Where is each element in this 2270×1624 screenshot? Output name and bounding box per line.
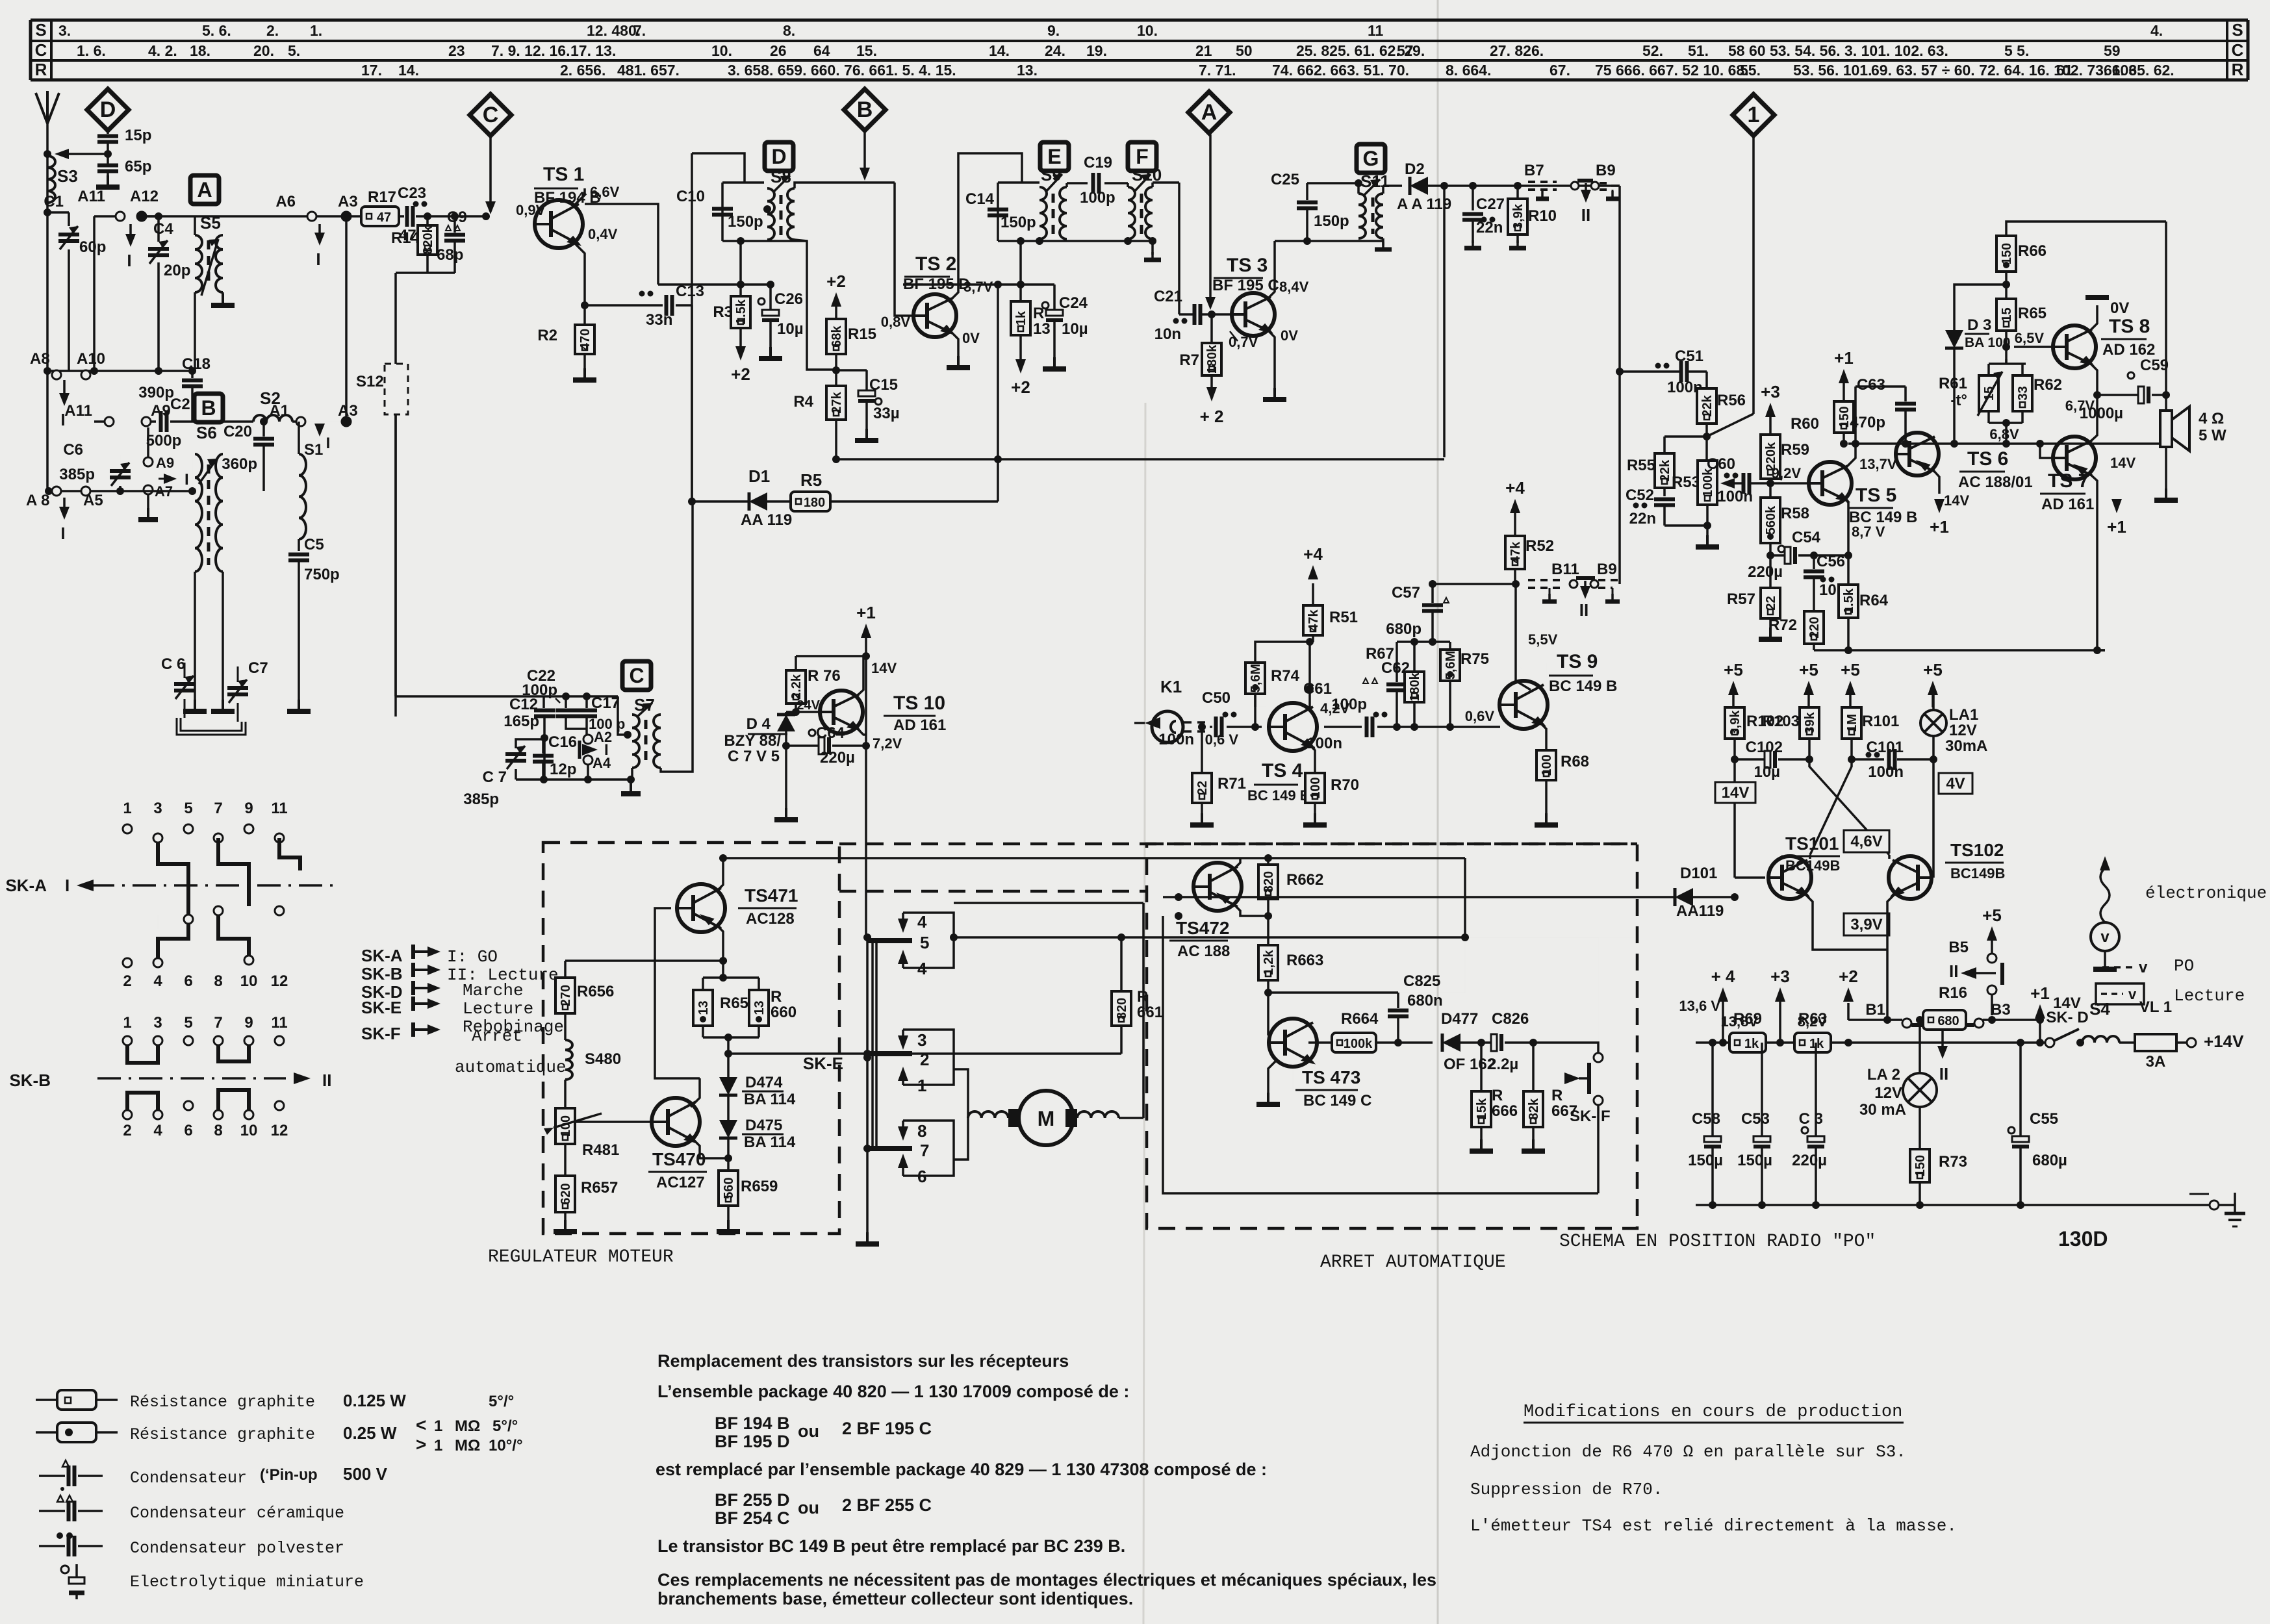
svg-text:B11: B11 [1551,561,1579,578]
TS471 emitter [717,925,723,961]
wire diamond1 to R56 node [1707,414,1754,437]
svg-text:8: 8 [214,1122,222,1139]
svg-text:5: 5 [184,800,192,817]
svg-text:5: 5 [184,1014,192,1032]
svg-text:D: D [771,145,786,168]
svg-text:30mA: 30mA [1945,737,1987,755]
svg-text:C53: C53 [1741,1110,1770,1128]
supply +1 under TS7 [2111,499,2122,513]
svg-text:0.125 W: 0.125 W [343,1391,406,1410]
svg-text:3: 3 [153,1014,162,1032]
svg-text:1: 1 [123,800,131,817]
svg-text:0V: 0V [2110,299,2129,317]
svg-text:D2: D2 [1405,160,1425,178]
svg-text:R662: R662 [1286,871,1323,889]
box B [194,394,223,422]
svg-text:2 BF 195 C: 2 BF 195 C [842,1419,932,1438]
svg-text:Suppression de R70.: Suppression de R70. [1470,1480,1663,1499]
svg-text:64: 64 [813,42,830,59]
svg-text:PO: PO [2174,956,2194,976]
svg-text:19.: 19. [1086,42,1107,59]
svg-text:C6: C6 [63,441,83,459]
switch S12 dashed [385,364,408,414]
svg-text:67.: 67. [1549,62,1570,79]
supply +1 under TS6 [1934,499,1945,513]
svg-text:C59: C59 [2140,357,2169,374]
svg-text:59: 59 [2104,42,2121,59]
ground under S10 [1151,241,1154,255]
ground bus bottom [1696,1204,2209,1206]
svg-text:60p: 60p [79,238,106,256]
svg-text:TS101: TS101 [1785,833,1839,854]
svg-text:470p: 470p [1850,414,1885,431]
svg-text:K1: K1 [1160,677,1182,696]
svg-text:5,6M: 5,6M [1249,664,1263,692]
svg-text:385p: 385p [59,466,95,483]
svg-text:12: 12 [271,972,288,990]
svg-text:automatique: automatique [455,1058,567,1077]
svg-text:TS 5: TS 5 [1856,485,1896,506]
svg-text:8: 8 [214,972,222,990]
svg-text:14.: 14. [989,42,1010,59]
dashed box arret [1147,844,1637,1228]
svg-text:(‘Pin-υp: (‘Pin-υp [260,1466,318,1484]
svg-text:2: 2 [920,1050,929,1069]
legend resistor 0.125W [36,1399,57,1401]
svg-text:220µ: 220µ [1748,563,1783,581]
svg-text:66. 65. 62.: 66. 65. 62. [2104,62,2174,79]
svg-text:11: 11 [271,1014,287,1032]
svg-text:C16: C16 [548,733,577,751]
diamond 1 [1733,94,1774,136]
diamond B [844,89,886,131]
svg-text:R66: R66 [2018,242,2047,260]
oscillator feedback top [692,153,745,183]
TS3 collector to G tank [1267,241,1275,299]
svg-text:A12: A12 [130,188,159,205]
svg-text:15.: 15. [856,42,877,59]
svg-text:500 V: 500 V [343,1464,388,1484]
svg-text:C7: C7 [248,659,268,677]
svg-text:Résistance graphite: Résistance graphite [130,1425,315,1444]
svg-text:1.: 1. [310,22,322,39]
svg-text:10µ: 10µ [1062,320,1088,338]
svg-text:+1: +1 [856,603,876,622]
svg-text:BF 194 B: BF 194 B [715,1414,790,1433]
svg-text:50: 50 [1236,42,1253,59]
svg-text:5. 6.: 5. 6. [202,22,231,39]
svg-text:G: G [1363,147,1379,170]
motor bottom wire [954,1118,968,1160]
svg-text:Adjonction de R6 470 Ω en: Adjonction de R6 470 Ω en parallèle sur … [1470,1442,1906,1462]
svg-text:B3: B3 [1991,1001,2011,1019]
SK-E bus [867,780,868,937]
label 14V boxed [1715,782,1755,803]
wire K1 to C50 [1184,721,1210,724]
svg-text:1.5k: 1.5k [734,299,748,325]
svg-text:B1: B1 [1865,1001,1885,1019]
transistor TS470 [652,1098,700,1146]
svg-text:A2: A2 [594,729,612,745]
svg-text:BC149B: BC149B [1785,857,1840,874]
svg-text:2: 2 [123,972,131,990]
contact 5 top [867,938,912,943]
svg-text:680p: 680p [1386,620,1422,638]
TS7 base bus [2040,444,2053,458]
svg-text:II: II [1939,1064,1948,1084]
wire C825 top loop [1398,992,1465,993]
svg-text:C20: C20 [223,423,252,440]
svg-text:BF 195 C: BF 195 C [1212,277,1279,294]
wire S3 bottom to C1 row [44,209,51,216]
transistor TS473 [1269,1019,1317,1067]
svg-text:C: C [629,664,644,687]
svg-text:24V: 24V [797,698,820,713]
svg-text:7.: 7. [633,22,646,39]
box A [190,175,219,204]
svg-text:47: 47 [377,210,391,225]
TS3 emitter ground [1267,329,1275,392]
TS1 collector wire [574,194,586,205]
svg-text:TS 9: TS 9 [1557,651,1598,672]
svg-text:1. 6.: 1. 6. [77,42,106,59]
svg-text:A: A [197,178,212,201]
svg-text:180k: 180k [1205,344,1219,374]
svg-text:R: R [35,60,47,79]
wire S12 to oscillator [394,414,397,696]
svg-text:TS 6: TS 6 [1967,448,2008,470]
svg-text:150p: 150p [1314,212,1349,230]
svg-text:14V: 14V [1944,492,1969,509]
svg-text:0,9V: 0,9V [516,202,546,218]
svg-text:S3: S3 [57,166,78,186]
svg-text:C 6: C 6 [161,655,185,673]
svg-text:B7: B7 [1524,162,1544,179]
speaker [2160,411,2172,447]
legend capacitor ceramique [57,1495,64,1502]
svg-text:Lecture: Lecture [463,999,533,1019]
svg-text:1: 1 [123,1014,131,1032]
svg-text:TS 4: TS 4 [1262,760,1303,781]
capacitor C26 [758,298,765,305]
svg-text:22k: 22k [1700,394,1715,416]
svg-text:1: 1 [1748,103,1760,127]
arrow I below A8 row2 [63,498,66,509]
svg-text:C4: C4 [153,220,173,238]
svg-text:15: 15 [2000,307,2014,322]
transistor TS471 [677,884,725,932]
svg-text:BF 254 C: BF 254 C [715,1508,790,1528]
svg-text:+1: +1 [1930,517,1949,537]
svg-text:branchements base, émetteur co: branchements base, émetteur collecteur s… [657,1589,1133,1608]
svg-text:33n: 33n [646,311,672,329]
svg-text:TS 10: TS 10 [893,692,945,714]
svg-text:R657: R657 [581,1179,618,1197]
TS102 collector [1888,855,1891,859]
svg-text:R55: R55 [1627,457,1655,474]
svg-text:C10: C10 [676,188,705,205]
svg-text:I: I [604,741,609,759]
svg-text:20p: 20p [164,262,190,279]
contact 7 bottom [867,1146,912,1151]
svg-text:9: 9 [244,800,253,817]
svg-text:A11: A11 [77,188,105,205]
svg-text:R: R [1551,1087,1562,1104]
svg-text:B: B [201,396,216,420]
cross coupling wires [1809,759,1889,855]
svg-text:Marche: Marche [463,981,524,1000]
TS473 emitter ground [1308,1059,1315,1091]
svg-text:6,7V: 6,7V [2065,398,2095,414]
svg-text:II: II [1579,600,1588,620]
svg-text:22n: 22n [1629,510,1656,527]
svg-text:6: 6 [184,1122,192,1139]
svg-text:+3: +3 [1770,967,1790,986]
svg-text:>: > [416,1434,426,1454]
diamond C [470,94,511,136]
svg-text:C60: C60 [1707,455,1735,473]
svg-text:1: 1 [434,1437,442,1454]
svg-text:AA 119: AA 119 [741,511,792,529]
svg-text:<: < [416,1415,426,1435]
ground under R657 [564,1220,567,1232]
svg-text:SK-B: SK-B [9,1071,51,1090]
svg-text:SK-A: SK-A [361,946,403,965]
svg-text:I: I [326,435,331,452]
svg-text:620: 620 [559,1183,573,1204]
svg-text:D477: D477 [1441,1010,1478,1028]
svg-text:11: 11 [271,800,287,817]
svg-text:R52: R52 [1525,537,1554,555]
svg-text:220µ: 220µ [820,749,855,767]
svg-text:C: C [2232,40,2244,60]
TS10 base wire [786,711,820,713]
svg-text:3.: 3. [58,22,71,39]
svg-text:C101: C101 [1867,739,1904,756]
svg-text:S: S [2232,20,2243,40]
svg-text:R14: R14 [391,229,420,247]
svg-text:12V: 12V [1949,722,1977,739]
svg-text:VL 1: VL 1 [2139,998,2172,1016]
svg-text:7. 71.: 7. 71. [1199,62,1236,79]
legend PO [2102,966,2132,969]
arrow I below A11 [129,224,132,236]
svg-text:61.: 61. [2056,62,2077,79]
svg-text:C 7: C 7 [483,768,507,786]
svg-text:R659: R659 [741,1178,778,1195]
svg-text:A8: A8 [30,350,50,368]
svg-text:0,6 V: 0,6 V [1205,731,1239,748]
svg-text:Condensateur: Condensateur [130,1469,247,1488]
svg-text:AC 188: AC 188 [1177,943,1230,960]
svg-text:BZY 88/: BZY 88/ [724,732,781,750]
transistor TS102 mirrored [1889,856,1932,899]
svg-text:12: 12 [271,1122,288,1139]
svg-text:9,2V: 9,2V [1772,465,1802,481]
svg-text:75 666. 667. 52 10. 68.: 75 666. 667. 52 10. 68. [1595,62,1749,79]
svg-text:58 60 53. 54. 56. 3. 101.: 58 60 53. 54. 56. 3. 101. 102. 63. [1728,42,1948,59]
svg-text:C55: C55 [2030,1110,2058,1128]
TS101 emitter [1805,894,1887,950]
wire R5 up to AGC row [997,285,999,501]
svg-text:7: 7 [214,800,222,817]
svg-text:500p: 500p [146,432,182,450]
wire 6.8V bus [1848,442,2166,445]
svg-text:13.: 13. [1017,62,1038,79]
svg-text:C54: C54 [1792,529,1821,546]
svg-text:661: 661 [1137,1004,1163,1021]
supply +2 under R13 [1015,359,1026,374]
label 4,6V boxed [1844,830,1889,852]
svg-text:7: 7 [920,1141,929,1160]
TS7 collector [2089,395,2097,442]
svg-text:R71: R71 [1218,775,1246,793]
svg-text:BA 100: BA 100 [1965,335,2010,350]
svg-text:D474: D474 [745,1074,783,1091]
electronique V symbol [2100,856,2110,870]
svg-text:+ 4: + 4 [1711,967,1735,986]
svg-text:47k: 47k [1509,541,1523,563]
svg-text:4 Ω: 4 Ω [2199,410,2224,427]
svg-text:R72: R72 [1768,616,1797,634]
svg-text:11: 11 [1368,22,1384,39]
TS9 emitter [1539,722,1546,750]
svg-text:39k: 39k [1803,711,1817,733]
svg-text:5.: 5. [288,42,300,59]
svg-text:17.: 17. [361,62,382,79]
svg-text:680n: 680n [1407,992,1443,1009]
svg-text:+4: +4 [1303,544,1323,564]
svg-text:14V: 14V [2110,455,2136,471]
TS7 emitter [2089,474,2097,650]
svg-text:5: 5 [920,933,929,952]
transistor TS9 [1499,681,1548,729]
svg-text:5°/°: 5°/° [489,1393,514,1410]
svg-text:6,5V: 6,5V [2015,330,2045,346]
svg-text:21: 21 [1195,42,1212,59]
svg-text:1,2k: 1,2k [1262,950,1276,976]
supply +2 under R7 [1206,387,1217,401]
svg-text:820k: 820k [421,225,435,254]
svg-text:560k: 560k [1764,505,1778,535]
TS471 collector top [717,858,723,891]
box C small [622,661,651,690]
TS470 emitter wire [691,1137,728,1158]
svg-text:R67: R67 [1366,645,1394,663]
emitter return bus [1814,649,2105,652]
svg-text:D475: D475 [745,1117,782,1134]
coil S3 [47,156,55,203]
svg-text:R62: R62 [2034,376,2062,394]
wire C13 down to D1 [691,305,693,501]
svg-text:2: 2 [123,1122,131,1139]
svg-text:8.: 8. [783,22,795,39]
svg-text:22: 22 [1195,781,1210,795]
lamp LA1 [1920,710,1946,736]
svg-text:10µ: 10µ [1754,763,1780,781]
wire R661 bottom row [728,1052,1121,1055]
wire S8 secondary top to TS2 [795,183,895,188]
svg-text:27. 826.: 27. 826. [1490,42,1544,59]
svg-text:3: 3 [917,1030,926,1050]
svg-text:v: v [2128,986,2137,1002]
transistor TS472 [1193,863,1242,911]
svg-text:150µ: 150µ [1688,1152,1723,1169]
wire A3 junction to R17 [342,212,350,220]
ground under S5 [222,294,224,305]
wire A5 row [49,490,192,492]
svg-text:+2: +2 [1839,967,1858,986]
svg-text:8. 664.: 8. 664. [1446,62,1491,79]
box F [1128,142,1156,171]
svg-text:C826: C826 [1492,1010,1529,1028]
dashed link boxes [839,890,1147,893]
svg-text:4V: 4V [1946,775,1965,793]
svg-text:R663: R663 [1286,952,1323,969]
svg-text:14V: 14V [1722,784,1750,802]
svg-text:-t°: -t° [1950,392,1967,409]
svg-text:6: 6 [184,972,192,990]
wire right vertical from B9 [1618,186,1621,584]
wire R663 to C825 row [1268,991,1398,994]
svg-text:SK-F: SK-F [361,1024,401,1043]
svg-text:BF 195 D: BF 195 D [715,1432,790,1451]
motor coils [968,1111,1008,1118]
svg-text:+ 2: + 2 [1200,407,1224,426]
svg-text:3. 658. 659. 660. 76. 661. 5.: 3. 658. 659. 660. 76. 661. 5. 4. 15. [728,62,956,79]
svg-text:82k: 82k [1527,1098,1541,1120]
svg-text:C19: C19 [1084,154,1112,171]
svg-text:A9: A9 [156,455,174,471]
svg-text:R65: R65 [2018,305,2047,322]
svg-text:+1: +1 [1834,348,1854,368]
transistor TS4 [1269,703,1317,751]
svg-text:C14: C14 [965,190,995,208]
svg-text:6,8V: 6,8V [1989,426,2019,442]
svg-text:17. 13.: 17. 13. [570,42,616,59]
ground under speaker [2165,488,2167,500]
svg-text:2. 656.: 2. 656. [560,62,606,79]
svg-text:C25: C25 [1271,171,1299,188]
svg-text:22k: 22k [1658,459,1672,481]
svg-text:TS470: TS470 [652,1149,706,1169]
svg-text:+4: +4 [1505,478,1525,498]
svg-text:0,6V: 0,6V [1465,708,1495,724]
svg-text:15p: 15p [125,127,151,144]
svg-text:150p: 150p [728,213,763,231]
svg-text:BC 149 B: BC 149 B [1247,787,1310,804]
svg-text:ou: ou [798,1421,819,1441]
svg-text:20.: 20. [253,42,274,59]
box D [765,142,793,171]
svg-text:TS 2: TS 2 [915,253,956,275]
svg-text:R: R [771,988,782,1006]
ground symbol right [2219,1204,2235,1206]
TS473 base from R663 [1267,1000,1269,1035]
svg-text:13,7V: 13,7V [1859,456,1897,472]
svg-text:R53: R53 [1672,474,1700,491]
svg-text:23: 23 [448,42,465,59]
svg-text:II: II [1581,205,1590,225]
svg-text:150µ: 150µ [1737,1152,1772,1169]
svg-text:10: 10 [240,972,258,990]
svg-text:Remplacement des transistors s: Remplacement des transistors sur les réc… [657,1351,1069,1371]
svg-text:360p: 360p [222,455,257,473]
svg-text:R61: R61 [1939,375,1967,392]
svg-text:1: 1 [434,1417,442,1435]
svg-text:C50: C50 [1202,689,1231,707]
svg-text:R58: R58 [1781,505,1809,522]
